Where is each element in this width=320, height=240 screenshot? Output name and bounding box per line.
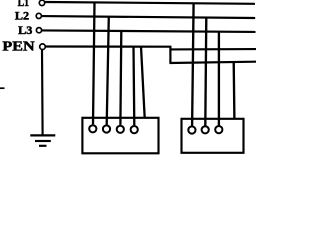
right box terminal 2 — [202, 126, 209, 133]
left box terminal 2 — [103, 125, 110, 132]
wire drop N branch to right box chassis — [233, 62, 236, 119]
wire drop L1 to right box — [192, 3, 194, 126]
wire N branch bus — [170, 62, 257, 63]
terminal circle L2 — [36, 13, 41, 18]
svg-text:L3: L3 — [18, 25, 33, 37]
wire drop L1 to left box — [93, 2, 95, 124]
ground earth symbol — [30, 135, 55, 145]
svg-text:PEN: PEN — [2, 39, 34, 54]
wire PEN bus right — [170, 48, 257, 50]
wire drop L2 to right box — [205, 17, 206, 126]
wire PEN terminal to earth — [41, 49, 44, 135]
wire L2 bus — [42, 16, 256, 18]
wire L1 bus — [45, 2, 255, 4]
right box terminal 1 — [188, 126, 195, 133]
wire drop L3 to right box — [218, 31, 220, 125]
right box terminal 3 — [215, 126, 222, 133]
wire drop L3 to left box — [119, 31, 122, 125]
wire PEN tap vertical — [169, 46, 171, 64]
left box terminal 1 — [89, 125, 96, 132]
wire PEN bus left — [46, 45, 172, 47]
right consumer box — [182, 119, 244, 153]
terminal circle L1 — [39, 0, 44, 5]
left consumer box — [82, 118, 158, 154]
terminal circle L3 — [36, 28, 41, 33]
svg-text:L1: L1 — [18, 0, 30, 9]
wire drop PEN to left box chassis — [141, 47, 145, 119]
wire stub at left margin — [0, 87, 5, 89]
wire drop PEN to left box N terminal — [132, 46, 135, 125]
left box terminal 4 — [131, 126, 138, 133]
wire L3 bus — [42, 30, 256, 32]
wire drop L2 to left box — [107, 16, 109, 124]
left box terminal 3 — [117, 126, 124, 133]
svg-text:L2: L2 — [15, 11, 30, 23]
terminal circle PEN — [40, 44, 46, 50]
